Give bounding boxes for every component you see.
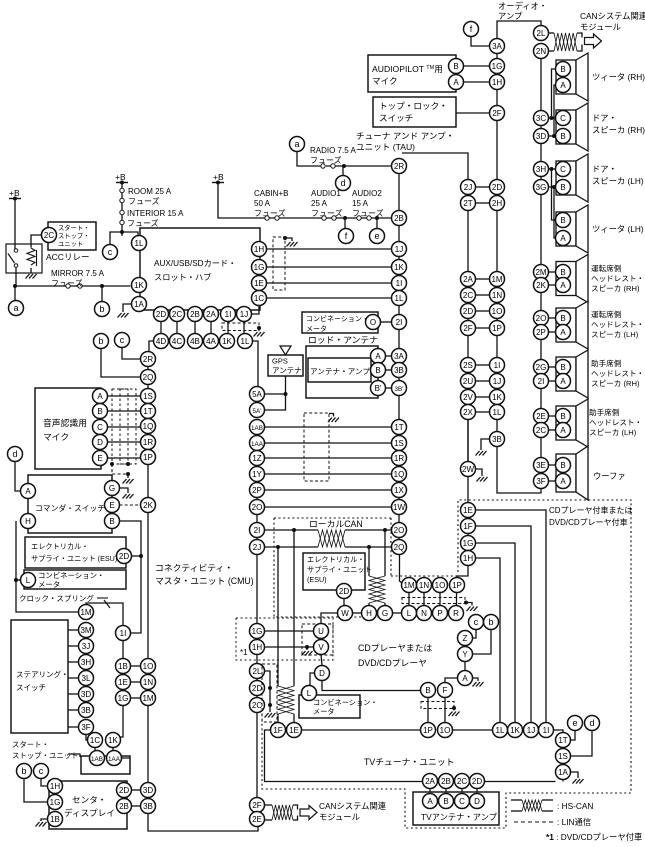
connector 2M	[534, 265, 549, 280]
svg-text:D: D	[474, 797, 480, 806]
connector 3M	[79, 623, 94, 638]
wire 1T-1S	[562, 748, 564, 749]
connector 1O	[433, 578, 448, 593]
svg-text:ロッド・アンテナ: ロッド・アンテナ	[308, 335, 378, 345]
wire 2K-A	[549, 284, 556, 286]
connector 2D	[337, 584, 352, 599]
wire steering pin	[68, 726, 79, 728]
fuse	[321, 164, 335, 168]
wire 1S-1A	[562, 764, 564, 765]
connector B	[105, 514, 120, 529]
svg-text:コンビネーション・: コンビネーション・	[38, 571, 104, 580]
ground 1B	[36, 822, 47, 827]
svg-text:ヘッドレスト・: ヘッドレスト・	[591, 320, 644, 329]
svg-text:ドア・: ドア・	[592, 113, 617, 123]
wire E-1P	[108, 457, 141, 459]
wire tweeter RH B	[552, 69, 556, 118]
connector 2Q	[392, 540, 407, 555]
connector 1I	[116, 626, 131, 641]
svg-text:1AA: 1AA	[251, 441, 264, 448]
wire d to A	[15, 462, 21, 492]
wire 2M-B	[549, 271, 556, 273]
wire steering pin	[68, 661, 79, 663]
svg-text:1E: 1E	[463, 506, 473, 515]
svg-text:2C: 2C	[172, 310, 182, 319]
GPS antenna mast	[280, 346, 291, 355]
svg-text:2B: 2B	[190, 310, 200, 319]
wire 1P-R	[456, 593, 458, 606]
node a	[9, 301, 24, 316]
svg-text:25 A: 25 A	[311, 199, 328, 208]
wire braid to 1E	[293, 714, 295, 723]
connector 3B	[79, 703, 94, 718]
ground mic shield	[123, 479, 134, 484]
svg-text:1H: 1H	[254, 245, 264, 254]
box combination meter (left)	[24, 570, 126, 589]
svg-text:モジュール: モジュール	[319, 812, 360, 822]
wire +B to relay switch	[14, 199, 16, 250]
speaker headrest speaker driver RH	[556, 255, 588, 303]
svg-text:ユニット: ユニット	[58, 241, 83, 248]
wire 1J-1L	[243, 317, 245, 338]
connector 2A	[461, 272, 476, 287]
svg-text:コマンダ・スイッチ: コマンダ・スイッチ	[35, 503, 105, 513]
svg-text:2C: 2C	[536, 426, 546, 435]
wire A ground	[473, 678, 479, 681]
svg-text:CANシステム関連: CANシステム関連	[580, 11, 645, 21]
connector 2D	[117, 549, 132, 564]
wire amp rail to speaker rail	[497, 447, 541, 494]
node b	[95, 302, 110, 317]
svg-text:1O: 1O	[440, 726, 451, 735]
wire 1C-1AB	[94, 748, 96, 751]
speaker woofer	[556, 446, 588, 500]
svg-text:1K: 1K	[394, 263, 404, 272]
wire local CAN to 2Q	[345, 546, 393, 548]
svg-text:スイッチ: スイッチ	[379, 113, 413, 123]
svg-text:ROOM 25 A: ROOM 25 A	[128, 187, 172, 196]
wire A-1H	[464, 81, 490, 83]
svg-text:B: B	[560, 412, 565, 421]
svg-text:1P: 1P	[423, 726, 433, 735]
svg-text:1N: 1N	[143, 678, 153, 687]
svg-text:a: a	[294, 139, 299, 149]
box AUDIOPILOT mic	[368, 55, 456, 92]
wire to node c	[110, 232, 122, 245]
clock spring mark	[97, 598, 110, 608]
svg-text:3L: 3L	[82, 674, 91, 683]
connector A	[556, 423, 571, 438]
svg-text:*1: *1	[240, 648, 248, 657]
svg-text:(ESU): (ESU)	[307, 575, 327, 584]
svg-text:2I: 2I	[396, 318, 403, 327]
junction	[268, 703, 272, 707]
ground 2L/2D/2C	[265, 713, 276, 718]
svg-text:B: B	[443, 797, 448, 806]
svg-text:2D: 2D	[339, 587, 349, 596]
svg-text:ディスプレイ: ディスプレイ	[64, 807, 115, 818]
connector Z	[458, 631, 473, 646]
svg-text:1F: 1F	[463, 522, 472, 531]
wire CAN riser H	[368, 547, 370, 576]
connector 1G	[490, 59, 505, 74]
svg-text:2C: 2C	[463, 291, 473, 300]
svg-text:2F: 2F	[252, 801, 261, 810]
connector B	[439, 794, 454, 809]
connector 2N	[534, 44, 549, 59]
wire 1A ground	[571, 772, 579, 778]
svg-text:スピーカ (RH): スピーカ (RH)	[591, 379, 640, 388]
legend wire	[542, 799, 553, 801]
node e	[370, 229, 385, 244]
fuse	[120, 210, 124, 224]
ground TV 1A	[573, 779, 584, 784]
connector A	[556, 325, 571, 340]
svg-text:アンテナ・アンプ: アンテナ・アンプ	[310, 367, 370, 376]
svg-text:4A: 4A	[206, 337, 216, 346]
connector 1J	[524, 723, 539, 738]
wire 2G-B	[549, 366, 556, 368]
svg-text:オーディオ・: オーディオ・	[498, 1, 547, 11]
wire 2D-4D	[160, 317, 162, 338]
wire 1M-L	[408, 593, 410, 606]
wire TAU to 2J column	[402, 153, 468, 180]
svg-text:3H: 3H	[81, 658, 91, 667]
wire b to 1G	[24, 779, 48, 803]
wire 3F to 1C	[86, 735, 88, 741]
connector 1W	[392, 500, 407, 515]
svg-text:+B: +B	[213, 172, 224, 182]
connector 2J	[461, 180, 476, 195]
box commander switch	[28, 475, 112, 533]
svg-text:1M: 1M	[142, 694, 153, 703]
connector 1L	[490, 405, 505, 420]
svg-text:R: R	[453, 609, 459, 618]
wire a to fuse	[297, 152, 321, 167]
fuse	[357, 216, 371, 220]
wire W-H	[353, 612, 362, 614]
svg-text:2U: 2U	[463, 377, 473, 386]
connector 1L	[493, 723, 508, 738]
svg-text:2I: 2I	[538, 377, 545, 386]
svg-text:ステアリング・: ステアリング・	[16, 669, 69, 679]
junction	[383, 528, 387, 532]
wire 3H-C	[549, 168, 556, 170]
svg-text:B: B	[560, 363, 565, 372]
svg-text:ストップ・ユニット: ストップ・ユニット	[12, 751, 79, 760]
connector 2B	[439, 774, 454, 789]
svg-text:CANシステム関連: CANシステム関連	[319, 801, 387, 811]
wire steering pin	[68, 709, 79, 711]
wire B-3B	[386, 369, 392, 371]
ground G	[123, 494, 134, 499]
connector 1S	[392, 436, 407, 451]
wire steering pin	[68, 629, 79, 631]
wire 1M to 1I	[86, 603, 123, 626]
connector 1G	[48, 795, 63, 810]
svg-text:C: C	[560, 114, 566, 123]
legend wire	[542, 810, 553, 812]
svg-text:1O: 1O	[143, 662, 154, 671]
speaker headrest speaker passenger RH	[556, 350, 588, 398]
connector A	[371, 349, 386, 364]
speaker headrest speaker driver LH	[556, 301, 588, 349]
connector 1J	[392, 242, 407, 257]
connector 1E	[287, 723, 302, 738]
connector 1P	[490, 321, 505, 336]
connector A	[556, 374, 571, 389]
connector 2B	[188, 307, 203, 322]
svg-text:2D: 2D	[119, 786, 129, 795]
svg-text:AUDIO1: AUDIO1	[311, 189, 341, 198]
junction	[257, 326, 261, 330]
wire to e	[376, 218, 378, 229]
connector 1H	[252, 242, 267, 257]
svg-text:マイク: マイク	[372, 76, 398, 86]
wire D to B	[322, 681, 421, 691]
wire B / LIN riser to 1I	[120, 521, 142, 633]
speaker door speaker RH	[556, 103, 588, 151]
connector A	[458, 671, 473, 686]
connector 2E	[250, 812, 265, 827]
wire Z-Y	[464, 646, 466, 647]
box combination meter (CD area)	[299, 695, 360, 718]
connector L	[402, 606, 417, 621]
svg-text:B: B	[109, 517, 114, 526]
svg-text:4C: 4C	[172, 337, 182, 346]
speaker door speaker LH	[556, 154, 588, 202]
connector 1H	[48, 779, 63, 794]
wire 2D-3D	[132, 789, 141, 791]
wire 1G-U	[265, 630, 314, 632]
svg-text:エレクトリカル・: エレクトリカル・	[307, 555, 365, 564]
connector 2X	[461, 405, 476, 420]
connector 1J	[490, 374, 505, 389]
legend HS-CAN braid	[522, 800, 542, 811]
ground 1I/1L shield	[254, 332, 265, 337]
wire 1I-1K	[227, 317, 229, 338]
wire e to 1T	[571, 731, 576, 741]
amp output rail	[540, 59, 542, 475]
box antenna amp	[308, 358, 371, 382]
wire 2A-1M	[476, 278, 490, 280]
connector 1AA	[107, 751, 122, 766]
connector 2C	[42, 228, 57, 243]
connector 2D	[461, 304, 476, 319]
svg-text:AUX/USB/SDカード・: AUX/USB/SDカード・	[154, 259, 236, 268]
wire rail 1H to CD 1P	[457, 517, 468, 578]
speaker tweeter RH	[556, 53, 588, 101]
wire steering pin	[68, 645, 79, 647]
wire 2X-1L	[476, 411, 490, 413]
svg-text:+B: +B	[9, 188, 20, 198]
connector 2C	[455, 774, 470, 789]
svg-text:1Q: 1Q	[394, 470, 405, 479]
wire 2B-B	[445, 789, 447, 794]
connector 1C	[88, 733, 103, 748]
svg-text:B: B	[560, 314, 565, 323]
svg-text:1O: 1O	[492, 307, 503, 316]
svg-text:1M: 1M	[403, 581, 414, 590]
svg-text:4B: 4B	[190, 337, 200, 346]
svg-text:1AB: 1AB	[91, 756, 103, 763]
svg-text:1B: 1B	[118, 662, 128, 671]
wire 2U-1J	[476, 380, 490, 382]
dashed box shield box AUX wires	[273, 237, 285, 290]
connector 1S	[141, 389, 156, 404]
connector B	[371, 363, 386, 378]
svg-text:スピーカ (RH): スピーカ (RH)	[592, 125, 645, 135]
svg-text:2H: 2H	[492, 199, 502, 208]
LIN wire E-2K	[120, 504, 141, 506]
wire 3C-C	[549, 117, 556, 119]
connector 4C	[170, 334, 185, 349]
svg-text:1Y: 1Y	[252, 470, 262, 479]
wire 1F down to TV bottom row	[265, 730, 556, 782]
connector D	[93, 435, 108, 450]
connector 1H	[490, 75, 505, 90]
svg-text:2F: 2F	[492, 109, 501, 118]
wire 2P-1X	[265, 489, 393, 491]
wire 1E to 1I TV	[476, 510, 547, 723]
svg-text:MIRROR 7.5 A: MIRROR 7.5 A	[51, 269, 105, 278]
svg-text:B: B	[375, 366, 380, 375]
node f	[339, 229, 354, 244]
svg-text:アンプ: アンプ	[498, 11, 523, 21]
connector 1B	[116, 659, 131, 674]
wire 2J-2D	[476, 186, 490, 188]
svg-text:1G: 1G	[118, 694, 129, 703]
ground CD shield	[467, 607, 478, 612]
svg-text:2W: 2W	[462, 465, 474, 474]
connector 2F	[461, 321, 476, 336]
wire 2S-1I	[476, 364, 490, 366]
svg-text:1I: 1I	[225, 310, 232, 319]
svg-text:1H: 1H	[492, 78, 502, 87]
svg-text:H: H	[25, 517, 31, 526]
svg-text:V: V	[318, 643, 324, 652]
box electrical supply unit ESU	[25, 537, 126, 568]
svg-text:1E: 1E	[289, 726, 299, 735]
connector 1Y	[250, 467, 265, 482]
svg-text:1C: 1C	[90, 736, 100, 745]
svg-text:15 A: 15 A	[352, 199, 369, 208]
connector 2P	[534, 325, 549, 340]
svg-text:b: b	[98, 336, 103, 346]
wire 1A ground	[123, 304, 132, 312]
svg-text:3A: 3A	[394, 352, 404, 361]
connector 2W	[461, 462, 476, 477]
wire 3G-B	[549, 186, 556, 188]
svg-text:1G: 1G	[463, 539, 474, 548]
junction	[139, 554, 143, 558]
amp left rail	[496, 54, 498, 433]
svg-text:1B: 1B	[50, 815, 60, 824]
wire 2B-3B	[132, 805, 141, 807]
svg-text:1AA: 1AA	[108, 756, 121, 763]
svg-text:A: A	[375, 352, 381, 361]
junction	[126, 472, 130, 476]
svg-text:3D: 3D	[143, 786, 153, 795]
svg-text:b: b	[21, 766, 26, 776]
CAN twisted pair to CD player	[369, 576, 385, 603]
svg-text:アンテナ: アンテナ	[272, 366, 302, 375]
svg-text:1F: 1F	[273, 726, 282, 735]
svg-text:メータ: メータ	[306, 324, 327, 333]
svg-text:助手席側: 助手席側	[589, 407, 620, 417]
wire 3B ground	[481, 439, 490, 450]
wire 2C-1N	[476, 294, 490, 296]
connector P	[433, 606, 448, 621]
wire W to U	[321, 613, 338, 624]
svg-text:1G: 1G	[252, 627, 263, 636]
connector 1O	[490, 304, 505, 319]
svg-text:1J: 1J	[395, 245, 403, 254]
connector W	[338, 606, 353, 621]
svg-text:2I: 2I	[254, 526, 261, 535]
speaker tweeter LH	[556, 205, 588, 253]
svg-text:B: B	[560, 65, 565, 74]
connector B	[556, 62, 571, 77]
svg-text:1T: 1T	[394, 423, 403, 432]
svg-text:2A: 2A	[206, 310, 216, 319]
wire 1B ground	[41, 819, 48, 821]
svg-text:3H: 3H	[536, 165, 546, 174]
svg-text:C: C	[97, 423, 103, 432]
wire coil to ground	[30, 268, 32, 273]
junction	[452, 706, 456, 710]
svg-text:5A: 5A	[252, 390, 262, 399]
connector B	[556, 180, 571, 195]
wire 2O-B	[549, 317, 556, 319]
wire 1E-1I	[267, 282, 392, 284]
svg-text:N: N	[421, 609, 427, 618]
svg-text:1T: 1T	[143, 407, 152, 416]
svg-text:モジュール: モジュール	[580, 22, 621, 32]
junction	[13, 284, 17, 288]
svg-text:サプライ・ユニット (ESU): サプライ・ユニット (ESU)	[31, 554, 117, 563]
svg-text:スピーカ (LH): スピーカ (LH)	[589, 428, 637, 437]
svg-text:1G: 1G	[50, 798, 61, 807]
wire 1C-1L	[267, 297, 392, 299]
box GPS antenna	[268, 355, 303, 376]
connector E	[105, 498, 120, 513]
junction	[342, 164, 346, 168]
svg-text:1W: 1W	[393, 503, 405, 512]
wire G-L	[393, 612, 402, 614]
svg-text:フューズ: フューズ	[128, 196, 160, 206]
local CAN twisted pair	[318, 530, 345, 547]
junction	[110, 462, 114, 466]
connector A	[556, 474, 571, 489]
wire 2D-1O	[476, 310, 490, 312]
connector E	[93, 451, 108, 466]
svg-text:1I: 1I	[543, 726, 550, 735]
connector 1L	[392, 291, 407, 306]
svg-text:1C: 1C	[254, 294, 264, 303]
wire steering pin	[68, 693, 79, 695]
connector B	[556, 265, 571, 280]
connector 1M	[402, 578, 417, 593]
wire braid end top	[293, 805, 298, 810]
wire b to 2Q	[101, 349, 141, 378]
node a	[290, 137, 305, 152]
svg-text:3D: 3D	[81, 690, 91, 699]
svg-text:b: b	[99, 304, 104, 314]
CMU left rail upper	[147, 352, 149, 514]
svg-text:1L: 1L	[493, 408, 502, 417]
svg-text:ACCリレー: ACCリレー	[46, 252, 89, 262]
